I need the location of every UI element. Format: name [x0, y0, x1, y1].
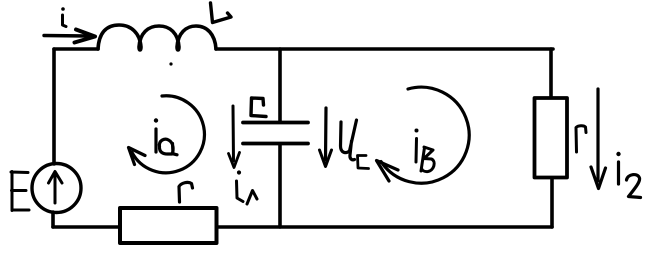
- label E: [11, 172, 29, 211]
- resistor r (right): [535, 98, 568, 178]
- label i (top left): [63, 15, 67, 27]
- label Uc: [341, 120, 369, 169]
- wire: right vertical lower: [550, 178, 554, 227]
- label iB: [415, 129, 435, 172]
- label C: [251, 98, 266, 117]
- current arrow i1: [229, 106, 240, 168]
- wire: top wire left segment: [54, 47, 98, 51]
- label ia: [154, 118, 177, 155]
- wire: left vertical lower: [51, 212, 55, 227]
- label i2: [616, 152, 640, 198]
- label i1: [237, 170, 258, 204]
- wire: top wire right segment: [216, 47, 553, 51]
- label r (right resistor): [576, 126, 586, 152]
- wire: right vertical upper: [549, 49, 553, 98]
- resistor r (bottom): [120, 208, 217, 243]
- wire: bottom wire: [53, 225, 552, 229]
- loop current iB (arc + arrowhead): [377, 87, 470, 183]
- loop current ia (arc + arrowhead): [129, 96, 205, 173]
- current arrow i: [44, 30, 95, 43]
- current arrow i2: [591, 89, 606, 189]
- wire: left vertical upper: [52, 49, 56, 164]
- label r (bottom resistor): [179, 182, 193, 202]
- capacitor C plates: [243, 123, 308, 144]
- wire: capacitor branch upper: [278, 49, 282, 121]
- label L: [211, 3, 232, 23]
- source E: [32, 164, 81, 213]
- wire: capacitor branch lower: [278, 144, 282, 227]
- stray dot: [169, 62, 172, 65]
- voltage arrow Uc: [320, 108, 332, 167]
- inductor L: [98, 25, 216, 50]
